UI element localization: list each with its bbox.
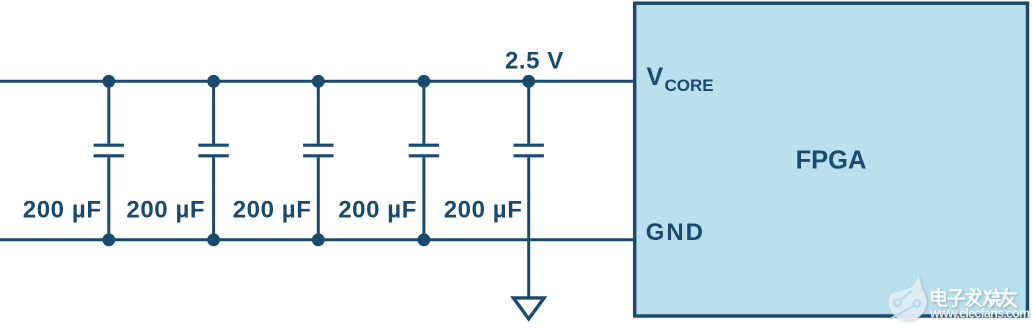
svg-text:200 µF: 200 µF [233,197,312,224]
svg-text:V: V [647,63,664,91]
watermark logo circuit trace [892,291,921,318]
capacitor C2 [198,81,228,240]
node junction C4 top [418,75,431,88]
svg-text:200 µF: 200 µF [126,197,205,224]
capacitor C5 [514,81,544,240]
node junction C3 top [312,75,325,88]
watermark text elecfans chinese [932,289,1016,307]
wire to ground [527,240,530,297]
node junction C4 bottom [418,233,431,246]
svg-text:CORE: CORE [665,76,714,95]
svg-text:200 µF: 200 µF [338,197,417,224]
node junction C2 top [207,75,220,88]
FPGA U1 box [635,3,1028,316]
node junction C1 bottom [102,233,115,246]
node junction C3 bottom [312,233,325,246]
node junction C5 top [522,75,535,88]
svg-text:GND: GND [646,219,705,246]
capacitor C3 [303,81,333,240]
node junction C1 top [102,75,115,88]
pin label VCORE [647,63,714,95]
wire top rail (2.5 V net) [0,80,635,83]
svg-text:FPGA: FPGA [796,147,867,175]
capacitor C4 [409,81,439,240]
svg-text:200 µF: 200 µF [444,197,523,224]
wire bottom rail (GND net) [0,238,635,241]
node junction C2 bottom [207,233,220,246]
ground symbol [513,298,544,319]
svg-text:2.5 V: 2.5 V [505,48,564,75]
svg-text:www.elecfans.com: www.elecfans.com [929,307,1030,321]
capacitor C1 [94,81,124,240]
svg-text:200 µF: 200 µF [23,197,102,224]
watermark logo drop [889,276,927,321]
